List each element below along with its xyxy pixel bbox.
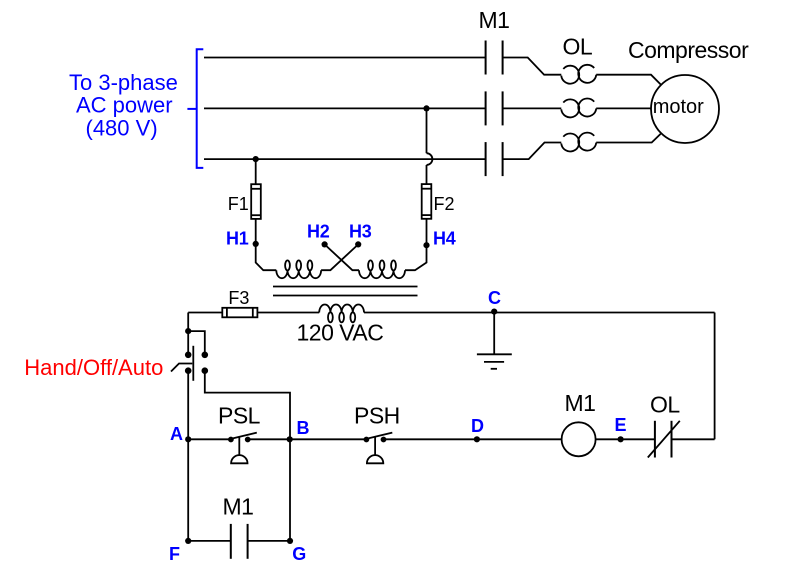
svg-text:120 VAC: 120 VAC: [297, 320, 384, 346]
svg-text:D: D: [471, 416, 484, 436]
svg-text:F3: F3: [228, 288, 249, 308]
svg-text:Compressor: Compressor: [628, 37, 749, 63]
svg-text:B: B: [297, 418, 310, 438]
svg-text:A: A: [170, 424, 183, 444]
svg-text:AC power: AC power: [76, 93, 173, 118]
svg-text:PSL: PSL: [218, 402, 261, 428]
svg-text:To 3-phase: To 3-phase: [69, 70, 178, 95]
svg-text:E: E: [615, 415, 627, 435]
svg-text:Hand/Off/Auto: Hand/Off/Auto: [24, 355, 163, 380]
svg-text:F1: F1: [228, 194, 249, 214]
svg-text:H2: H2: [307, 222, 330, 242]
svg-text:OL: OL: [650, 392, 680, 418]
svg-text:F: F: [169, 544, 180, 564]
svg-text:PSH: PSH: [354, 402, 400, 428]
svg-text:M1: M1: [565, 390, 596, 416]
svg-text:OL: OL: [563, 34, 593, 60]
svg-text:H1: H1: [226, 229, 249, 249]
svg-text:H4: H4: [433, 229, 456, 249]
svg-text:M1: M1: [479, 7, 510, 33]
svg-text:M1: M1: [223, 494, 254, 520]
svg-text:(480 V): (480 V): [86, 116, 158, 141]
svg-text:F2: F2: [434, 194, 455, 214]
svg-text:G: G: [292, 544, 306, 564]
svg-text:H3: H3: [349, 222, 372, 242]
svg-text:C: C: [488, 288, 501, 308]
svg-text:motor: motor: [653, 96, 704, 118]
